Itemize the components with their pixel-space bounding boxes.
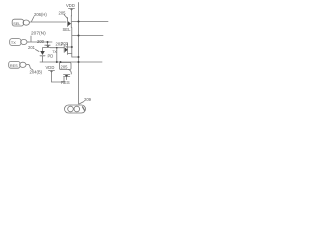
svg-text:RES: RES	[61, 80, 70, 85]
svg-text:PD: PD	[48, 54, 54, 59]
svg-text:SEL: SEL	[13, 22, 20, 26]
svg-text:VDD: VDD	[46, 65, 55, 70]
svg-text:200: 200	[37, 39, 45, 44]
svg-text:209: 209	[84, 97, 92, 102]
svg-text:VDD: VDD	[66, 3, 75, 8]
svg-text:204(B): 204(B)	[30, 70, 43, 75]
svg-text:RES: RES	[10, 64, 18, 68]
svg-text:207(N): 207(N)	[31, 31, 46, 37]
svg-text:205: 205	[59, 11, 67, 16]
svg-text:201: 201	[28, 45, 36, 50]
svg-text:205: 205	[61, 65, 69, 70]
svg-text:206(H): 206(H)	[34, 12, 47, 17]
svg-text:202: 202	[56, 42, 64, 47]
svg-text:SEL: SEL	[63, 27, 72, 32]
svg-text:TX: TX	[11, 41, 16, 45]
svg-text:TX: TX	[52, 50, 57, 54]
